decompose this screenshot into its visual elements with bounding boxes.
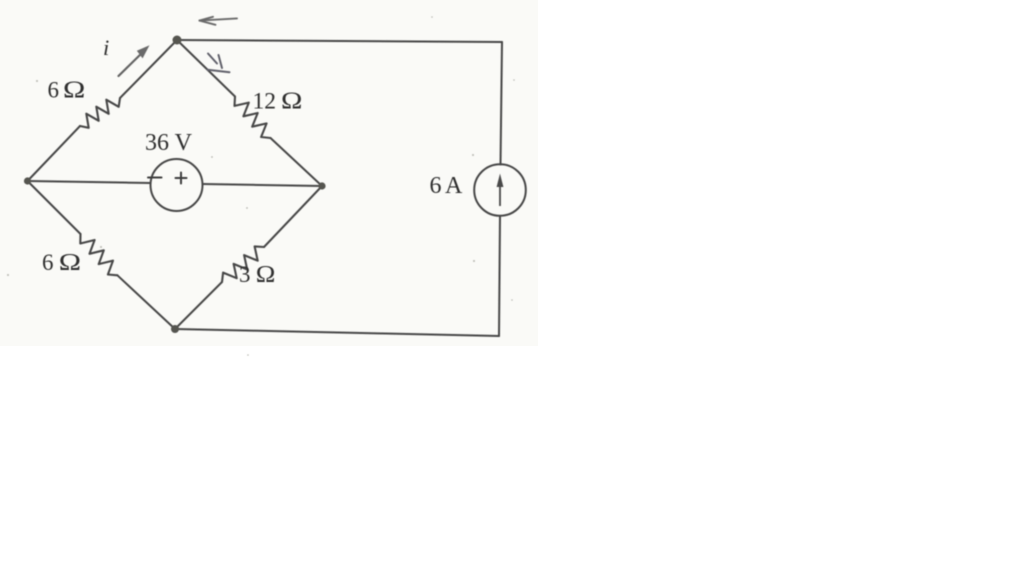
svg-text:Ω: Ω [63, 76, 85, 103]
svg-text:Ω: Ω [281, 87, 302, 114]
svg-text:Ω: Ω [256, 262, 276, 288]
svg-text:36 V: 36 V [145, 130, 193, 156]
svg-text:12: 12 [253, 89, 277, 115]
svg-text:6: 6 [430, 173, 442, 199]
svg-text:3: 3 [239, 262, 251, 287]
svg-text:A: A [445, 173, 463, 199]
svg-text:i: i [103, 35, 109, 60]
svg-text:Ω: Ω [59, 249, 81, 276]
svg-text:6: 6 [42, 250, 54, 275]
svg-text:6: 6 [48, 78, 60, 103]
